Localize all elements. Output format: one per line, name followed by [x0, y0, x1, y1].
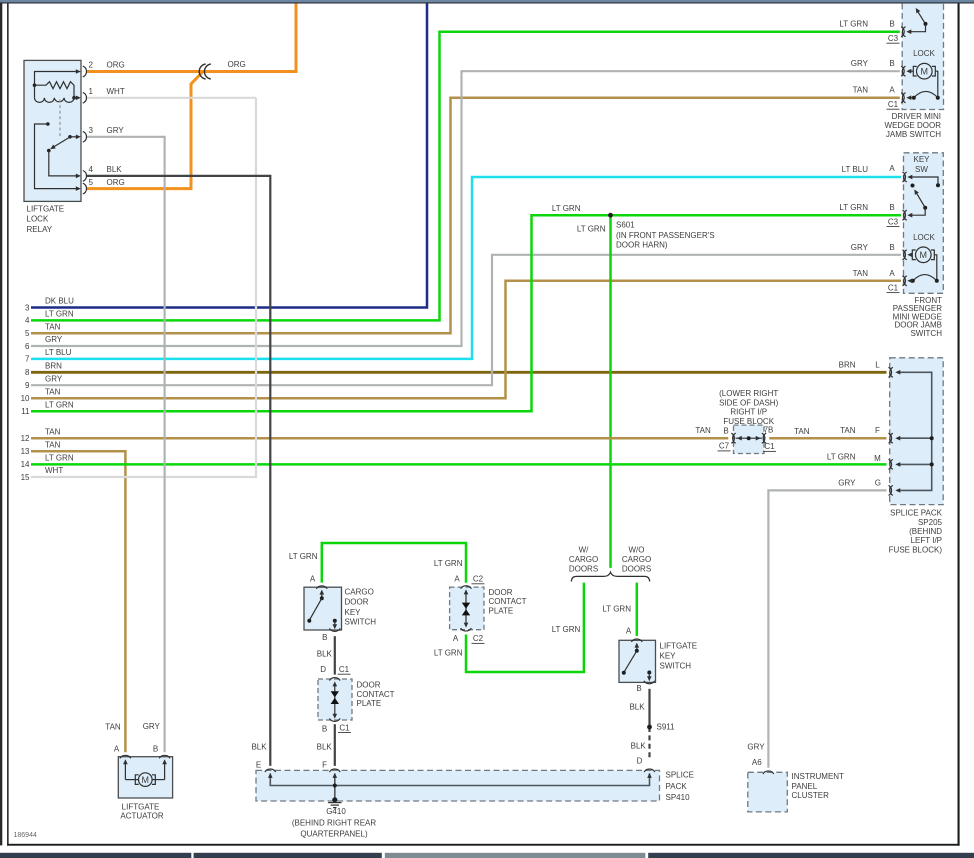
svg-text:A: A	[453, 634, 459, 643]
svg-text:B: B	[636, 684, 641, 693]
svg-text:DOORS: DOORS	[569, 565, 598, 574]
svg-text:W/: W/	[579, 546, 590, 555]
svg-text:S911: S911	[657, 723, 676, 732]
svg-text:B: B	[322, 633, 327, 642]
svg-text:LT GRN: LT GRN	[434, 649, 463, 658]
svg-text:LT GRN: LT GRN	[839, 203, 868, 212]
svg-text:M: M	[921, 66, 929, 76]
svg-text:LT BLU: LT BLU	[842, 165, 869, 174]
svg-text:4: 4	[89, 165, 94, 174]
svg-text:LT GRN: LT GRN	[552, 625, 581, 634]
svg-text:BRN: BRN	[839, 360, 856, 369]
svg-text:A: A	[626, 626, 632, 635]
svg-text:KEY: KEY	[345, 608, 362, 617]
svg-text:M: M	[874, 454, 881, 463]
svg-text:SPLICE PACK: SPLICE PACK	[890, 509, 943, 518]
svg-text:C2: C2	[473, 575, 484, 584]
svg-text:KEY: KEY	[660, 651, 677, 660]
svg-text:TAN: TAN	[45, 427, 61, 436]
svg-text:ACTUATOR: ACTUATOR	[120, 811, 163, 820]
svg-text:SIDE OF DASH): SIDE OF DASH)	[719, 398, 778, 407]
svg-text:LT GRN: LT GRN	[552, 204, 581, 213]
svg-text:B: B	[889, 243, 894, 252]
svg-text:5: 5	[89, 178, 94, 187]
svg-text:LIFTGATE: LIFTGATE	[27, 205, 65, 214]
svg-text:L: L	[875, 360, 880, 369]
svg-text:S601: S601	[616, 221, 635, 230]
svg-text:D: D	[637, 756, 643, 765]
svg-text:BLK: BLK	[107, 165, 123, 174]
svg-text:SW: SW	[915, 165, 928, 174]
svg-text:SPLICE: SPLICE	[666, 771, 694, 780]
svg-text:15: 15	[21, 473, 30, 482]
svg-text:4: 4	[25, 316, 30, 325]
svg-text:3: 3	[25, 303, 30, 312]
svg-text:LEFT I/P: LEFT I/P	[911, 536, 942, 545]
svg-text:B: B	[322, 724, 327, 733]
svg-text:SWITCH: SWITCH	[910, 329, 942, 338]
svg-text:11: 11	[21, 407, 30, 416]
svg-text:A: A	[114, 745, 120, 754]
svg-text:A: A	[310, 575, 316, 584]
svg-text:BLK: BLK	[251, 743, 267, 752]
svg-text:A: A	[454, 575, 460, 584]
svg-text:2: 2	[89, 61, 94, 70]
svg-text:ORG: ORG	[107, 61, 125, 70]
svg-text:GRY: GRY	[851, 243, 869, 252]
svg-text:(BEHIND: (BEHIND	[909, 527, 942, 536]
svg-text:A: A	[889, 86, 895, 95]
svg-text:(BEHIND RIGHT REAR: (BEHIND RIGHT REAR	[292, 818, 377, 827]
svg-text:(IN FRONT PASSENGER'S: (IN FRONT PASSENGER'S	[616, 231, 715, 240]
svg-text:LOCK: LOCK	[913, 233, 935, 242]
svg-text:LIFTGATE: LIFTGATE	[660, 642, 698, 651]
svg-text:G410: G410	[326, 807, 346, 816]
svg-text:SP205: SP205	[918, 518, 943, 527]
svg-text:BLK: BLK	[317, 743, 333, 752]
svg-text:BLK: BLK	[631, 742, 647, 751]
svg-text:B: B	[889, 20, 894, 29]
svg-text:W/O: W/O	[629, 546, 645, 555]
svg-text:C3: C3	[888, 217, 899, 226]
svg-text:7B: 7B	[764, 426, 774, 435]
svg-text:C7: C7	[719, 442, 730, 451]
svg-text:A: A	[889, 164, 895, 173]
svg-text:C3: C3	[888, 34, 899, 43]
svg-text:C1: C1	[339, 665, 350, 674]
svg-text:LT GRN: LT GRN	[827, 452, 856, 461]
svg-text:PANEL: PANEL	[792, 782, 818, 791]
svg-text:A: A	[889, 269, 895, 278]
svg-text:TAN: TAN	[840, 426, 856, 435]
svg-text:PACK: PACK	[666, 782, 688, 791]
svg-text:LT GRN: LT GRN	[289, 552, 318, 561]
svg-text:QUARTERPANEL): QUARTERPANEL)	[300, 830, 368, 839]
svg-text:C2: C2	[473, 634, 484, 643]
svg-text:(LOWER RIGHT: (LOWER RIGHT	[719, 389, 778, 398]
svg-text:6: 6	[25, 342, 30, 351]
svg-text:LOCK: LOCK	[913, 49, 935, 58]
svg-text:13: 13	[21, 447, 30, 456]
svg-text:LT BLU: LT BLU	[45, 348, 72, 357]
svg-text:GRY: GRY	[45, 374, 63, 383]
svg-text:SWITCH: SWITCH	[660, 661, 692, 670]
svg-text:186944: 186944	[14, 832, 37, 839]
svg-text:JAMB SWITCH: JAMB SWITCH	[886, 130, 941, 139]
svg-text:GRY: GRY	[838, 478, 856, 487]
svg-text:CARGO: CARGO	[345, 588, 374, 597]
svg-text:CONTACT: CONTACT	[489, 597, 527, 606]
svg-text:LT GRN: LT GRN	[602, 604, 631, 613]
svg-text:M: M	[142, 775, 150, 785]
svg-text:5: 5	[25, 329, 30, 338]
svg-text:DOOR: DOOR	[357, 681, 381, 690]
svg-text:B: B	[889, 203, 894, 212]
svg-text:CLUSTER: CLUSTER	[792, 791, 830, 800]
svg-text:DOORS: DOORS	[622, 565, 651, 574]
svg-text:C1: C1	[888, 283, 899, 292]
svg-text:FUSE BLOCK: FUSE BLOCK	[723, 417, 774, 426]
svg-text:INSTRUMENT: INSTRUMENT	[792, 772, 845, 781]
svg-text:LT GRN: LT GRN	[434, 559, 463, 568]
svg-text:RELAY: RELAY	[27, 225, 53, 234]
svg-text:C1: C1	[339, 723, 350, 732]
svg-text:SWITCH: SWITCH	[345, 617, 377, 626]
svg-text:FUSE BLOCK): FUSE BLOCK)	[889, 545, 943, 554]
svg-text:3: 3	[89, 126, 94, 135]
svg-text:LT GRN: LT GRN	[45, 310, 74, 319]
svg-text:M: M	[920, 250, 928, 260]
svg-text:GRY: GRY	[107, 126, 125, 135]
svg-text:F: F	[322, 761, 327, 770]
svg-text:B: B	[889, 59, 894, 68]
svg-text:F: F	[875, 426, 880, 435]
svg-text:CONTACT: CONTACT	[357, 690, 395, 699]
svg-text:10: 10	[21, 394, 30, 403]
svg-text:BLK: BLK	[317, 650, 333, 659]
svg-text:LOCK: LOCK	[27, 215, 49, 224]
svg-text:PLATE: PLATE	[489, 606, 514, 615]
svg-text:9: 9	[25, 381, 30, 390]
svg-text:TAN: TAN	[45, 322, 61, 331]
svg-text:LT GRN: LT GRN	[577, 224, 606, 233]
svg-text:LIFTGATE: LIFTGATE	[122, 802, 160, 811]
svg-text:C1: C1	[888, 100, 899, 109]
svg-text:D: D	[320, 665, 326, 674]
svg-text:A6: A6	[752, 758, 762, 767]
svg-text:DOOR: DOOR	[489, 588, 513, 597]
svg-text:GRY: GRY	[143, 722, 161, 731]
svg-text:CARGO: CARGO	[569, 555, 598, 564]
svg-text:GRY: GRY	[747, 742, 765, 751]
svg-text:LT GRN: LT GRN	[45, 454, 74, 463]
svg-text:RIGHT I/P: RIGHT I/P	[730, 408, 767, 417]
svg-text:WEDGE DOOR: WEDGE DOOR	[885, 121, 942, 130]
svg-text:7: 7	[25, 355, 30, 364]
svg-text:1: 1	[89, 87, 94, 96]
svg-text:WHT: WHT	[107, 87, 125, 96]
svg-text:14: 14	[21, 460, 30, 469]
svg-text:SP410: SP410	[666, 793, 691, 802]
svg-text:TAN: TAN	[45, 388, 61, 397]
svg-text:DK BLU: DK BLU	[45, 297, 74, 306]
svg-text:ORG: ORG	[107, 178, 125, 187]
svg-text:LT GRN: LT GRN	[45, 401, 74, 410]
svg-text:TAN: TAN	[45, 441, 61, 450]
svg-text:G: G	[875, 478, 881, 487]
svg-text:DRIVER MINI: DRIVER MINI	[892, 112, 941, 121]
svg-text:12: 12	[21, 434, 30, 443]
svg-text:KEY: KEY	[913, 155, 930, 164]
svg-text:BLK: BLK	[629, 702, 645, 711]
svg-text:LT GRN: LT GRN	[839, 20, 868, 29]
svg-text:TAN: TAN	[853, 86, 869, 95]
svg-text:B: B	[153, 745, 158, 754]
svg-text:TAN: TAN	[695, 426, 711, 435]
svg-text:8: 8	[25, 368, 30, 377]
svg-text:TAN: TAN	[794, 427, 810, 436]
svg-text:BRN: BRN	[45, 362, 62, 371]
svg-text:C1: C1	[764, 442, 775, 451]
svg-text:WHT: WHT	[45, 466, 63, 475]
svg-text:GRY: GRY	[851, 59, 869, 68]
svg-text:ORG: ORG	[228, 60, 246, 69]
svg-text:B: B	[723, 427, 728, 436]
svg-text:TAN: TAN	[105, 723, 121, 732]
svg-text:DOOR HARN): DOOR HARN)	[616, 241, 668, 250]
svg-text:TAN: TAN	[853, 269, 869, 278]
svg-text:E: E	[256, 761, 261, 770]
svg-text:GRY: GRY	[45, 335, 63, 344]
svg-text:PLATE: PLATE	[357, 699, 382, 708]
svg-text:CARGO: CARGO	[622, 555, 651, 564]
svg-text:DOOR: DOOR	[345, 598, 369, 607]
